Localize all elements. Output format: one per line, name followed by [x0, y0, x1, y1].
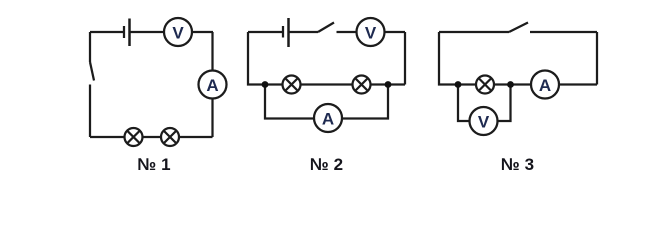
svg-text:№ 3: № 3	[501, 155, 534, 174]
svg-text:A: A	[206, 76, 218, 95]
svg-text:V: V	[365, 24, 377, 43]
svg-text:№ 2: № 2	[310, 155, 343, 174]
svg-text:V: V	[172, 24, 184, 43]
svg-text:A: A	[539, 76, 551, 95]
svg-text:V: V	[478, 113, 490, 132]
svg-text:№ 1: № 1	[137, 155, 170, 174]
svg-text:A: A	[322, 110, 334, 129]
